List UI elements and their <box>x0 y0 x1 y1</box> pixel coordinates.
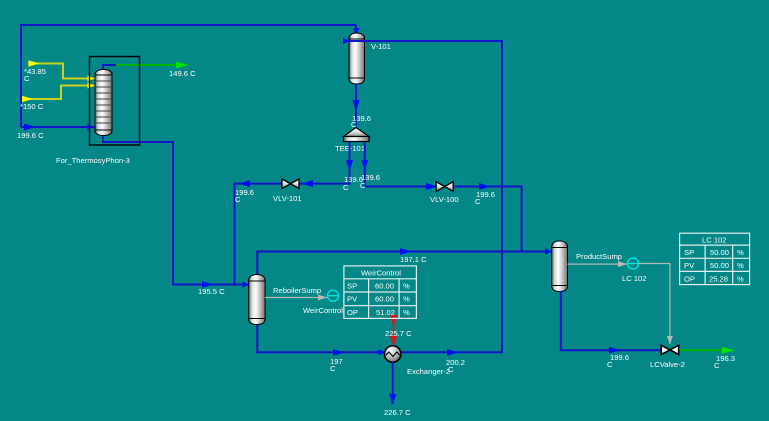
valve LCValve-2 <box>661 345 678 354</box>
svg-text:C: C <box>714 361 720 370</box>
wire column bottom feed 199.6 <box>21 124 95 131</box>
svg-text:C: C <box>607 360 613 369</box>
exchanger Exchanger-2 <box>385 346 401 362</box>
svg-text:149.6 C: 149.6 C <box>169 69 196 78</box>
column For_ThermosyPhon-3 <box>95 70 112 136</box>
svg-text:C: C <box>330 364 336 373</box>
svg-text:VLV-101: VLV-101 <box>273 194 302 203</box>
wire ProductSump bottoms to LCValve-2 <box>561 292 661 354</box>
wire reboiler feed arrow at nozzle <box>243 281 250 287</box>
wire reboiler vapour 197.1 to ProductSump <box>257 248 551 275</box>
vessel ReboilerSump <box>249 275 265 325</box>
svg-text:ReboilerSump: ReboilerSump <box>273 286 321 295</box>
wire exchanger vent down 226.7 <box>389 362 396 405</box>
vessel ProductSump <box>552 241 568 292</box>
wire TEE left branch to VLV-101 <box>235 142 354 285</box>
svg-text:%: % <box>737 275 744 284</box>
wire column overhead blue stub <box>103 65 116 70</box>
svg-text:50.00: 50.00 <box>710 248 729 257</box>
svg-text:25.28: 25.28 <box>709 275 728 284</box>
svg-text:SP: SP <box>347 282 357 291</box>
svg-text:LC 102: LC 102 <box>702 236 727 245</box>
wire V-101 bottoms to TEE-101 <box>353 84 360 127</box>
svg-text:60.00: 60.00 <box>375 282 394 291</box>
wire column bottoms to reboiler sump <box>103 135 249 288</box>
svg-text:C: C <box>475 197 481 206</box>
svg-text:PV: PV <box>684 261 695 270</box>
svg-text:C: C <box>24 74 30 83</box>
subflowsheet boundary box <box>90 57 140 146</box>
wire reboiler bottoms to exchanger <box>257 325 385 357</box>
svg-text:%: % <box>403 282 410 291</box>
svg-text:C: C <box>360 181 366 190</box>
svg-text:%: % <box>737 261 744 270</box>
wire yellow feed 1 (*43.85 C) <box>28 60 95 81</box>
wire exchanger outlet 200.2 (rises at x=502) drawn with recycle above <box>447 349 458 356</box>
valve VLV-100 <box>436 182 453 192</box>
svg-text:51.02: 51.02 <box>376 308 395 317</box>
svg-text:OP: OP <box>347 308 358 317</box>
svg-text:%: % <box>403 295 410 304</box>
svg-text:226.7 C: 226.7 C <box>384 408 411 417</box>
svg-text:*150 C: *150 C <box>20 102 44 111</box>
svg-text:C: C <box>235 195 241 204</box>
svg-text:SP: SP <box>684 248 694 257</box>
svg-text:PV: PV <box>347 295 358 304</box>
controller WeirControl circle <box>328 290 339 301</box>
svg-text:V-101: V-101 <box>371 42 391 51</box>
svg-text:C: C <box>343 183 349 192</box>
svg-text:WeirControl: WeirControl <box>303 306 343 315</box>
svg-text:LCValve-2: LCValve-2 <box>650 360 685 369</box>
svg-text:LC 102: LC 102 <box>622 274 647 283</box>
svg-text:OP: OP <box>684 275 695 284</box>
table WeirControl <box>344 266 417 319</box>
svg-text:197.1 C: 197.1 C <box>400 255 427 264</box>
wire green product 149.6 <box>116 62 188 69</box>
wire main top line <box>21 25 359 127</box>
wire TEE right branch to VLV-100 <box>361 142 437 191</box>
wire signal LC102 to LCValve-2 <box>639 264 673 345</box>
wire VLV-100 out to ProductSump <box>453 183 521 252</box>
svg-text:225.7 C: 225.7 C <box>385 329 412 338</box>
wire signal ProductSump to LC102 <box>568 261 628 267</box>
svg-text:Exchanger-2: Exchanger-2 <box>407 367 450 376</box>
svg-text:60.00: 60.00 <box>375 295 394 304</box>
tee TEE-101 <box>344 128 370 142</box>
wire red energy stream 225.7 into exchanger <box>390 315 397 346</box>
svg-text:199.6: 199.6 <box>610 353 629 362</box>
svg-text:VLV-100: VLV-100 <box>430 195 459 204</box>
controller LC 102 circle <box>628 258 639 269</box>
svg-text:For_ThermosyPhon-3: For_ThermosyPhon-3 <box>56 156 130 165</box>
svg-text:%: % <box>737 248 744 257</box>
wire green product 196.3 <box>680 347 735 354</box>
svg-text:%: % <box>403 308 410 317</box>
wire V-101 feed from recycle <box>343 38 502 353</box>
valve VLV-101 <box>282 179 299 189</box>
svg-text:50.00: 50.00 <box>710 261 729 270</box>
table LC 102 <box>680 233 750 284</box>
wire signal ReboilerSump to WeirControl <box>265 295 327 301</box>
svg-text:WeirControl: WeirControl <box>361 269 401 278</box>
svg-text:195.5 C: 195.5 C <box>198 287 225 296</box>
vessel V-101 <box>349 33 365 84</box>
svg-text:199.6 C: 199.6 C <box>17 131 44 140</box>
svg-text:ProductSump: ProductSump <box>576 252 622 261</box>
wire yellow feed 2 (*150 C) <box>22 82 95 102</box>
